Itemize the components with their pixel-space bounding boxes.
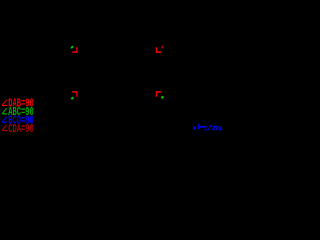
svg-text:CDA=90: CDA=90 (8, 122, 34, 135)
